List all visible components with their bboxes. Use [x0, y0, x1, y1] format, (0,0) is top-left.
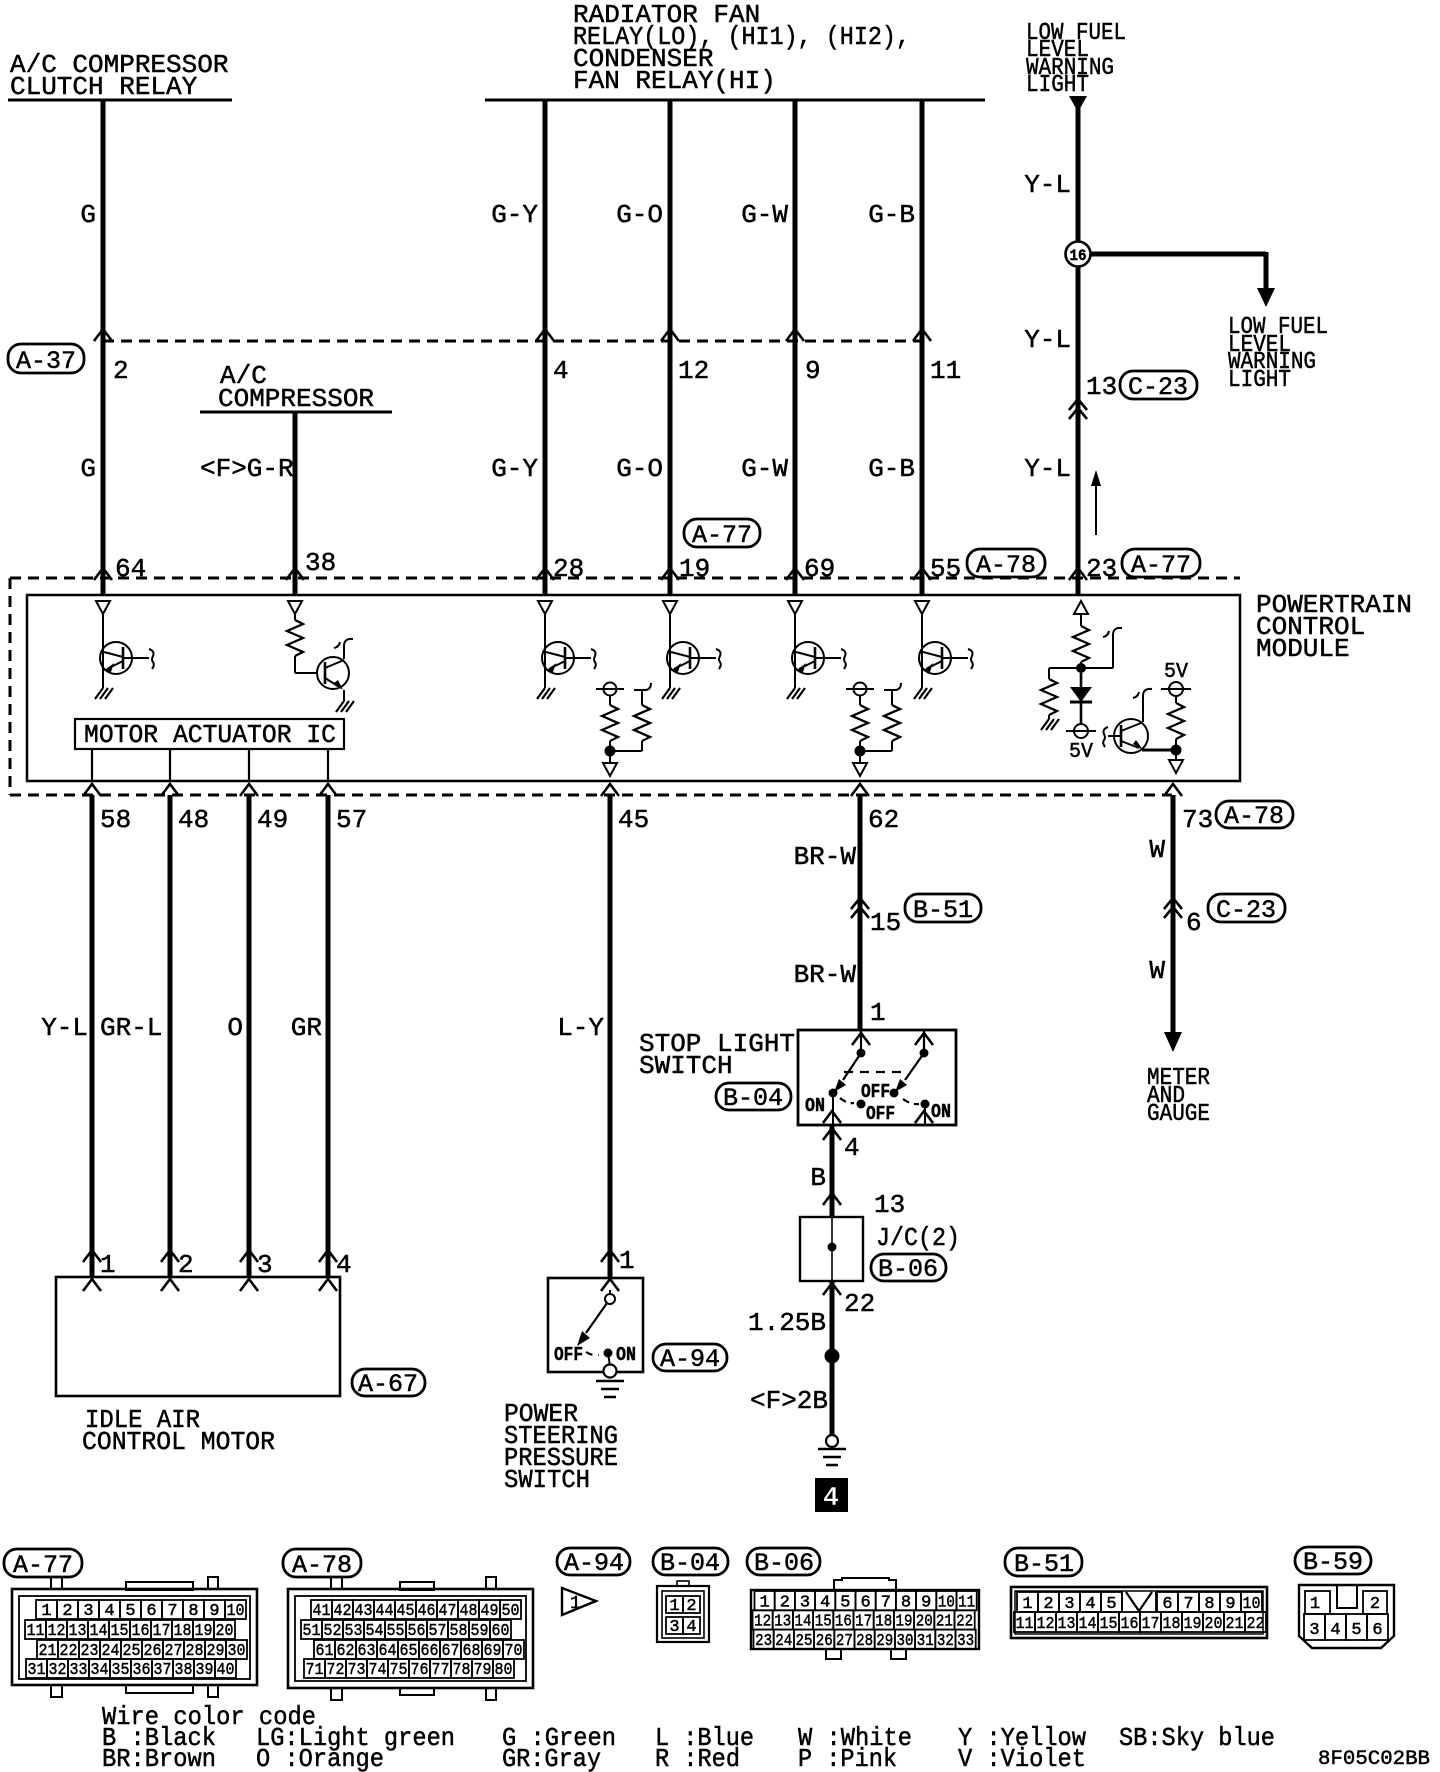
radiator fan relay bus bar: [485, 99, 985, 102]
svg-text:A-78: A-78: [976, 551, 1036, 580]
svg-text:O: O: [227, 1013, 243, 1043]
SLS left OFF contact dot: [857, 1100, 866, 1109]
IACM internal chevron pin 1: [83, 1279, 101, 1291]
svg-text:W: W: [1149, 835, 1165, 865]
splice dot on ground wire: [825, 1349, 840, 1364]
svg-text:L-Y: L-Y: [557, 1013, 604, 1043]
svg-text:9: 9: [209, 1602, 219, 1621]
MOTOR ACTUATOR IC box: [75, 719, 344, 750]
svg-text:MODULE: MODULE: [1256, 634, 1350, 664]
connector label B-06: [871, 1254, 946, 1284]
svg-text:CLUTCH RELAY: CLUTCH RELAY: [10, 72, 198, 102]
svg-text:13: 13: [1058, 1615, 1076, 1634]
IACM internal chevron pin 3: [240, 1279, 258, 1291]
svg-text:1: 1: [870, 998, 886, 1028]
svg-text:OFF: OFF: [866, 1103, 895, 1125]
transistor Q5 wire pin 69: [794, 614, 796, 688]
svg-text:J/C(2): J/C(2): [876, 1223, 960, 1253]
svg-text:79: 79: [474, 1661, 492, 1680]
SLS left pivot dot: [857, 1049, 866, 1058]
svg-text:A-67: A-67: [358, 1370, 418, 1399]
wire Y-L from low fuel level warning light to PCM pin 23: [1076, 108, 1081, 595]
arrowhead to meter and gauge: [1164, 1032, 1182, 1052]
sensor input circle for pin 45: [596, 683, 624, 696]
PSPS switch pivot: [605, 1290, 615, 1304]
idle air control motor label: [82, 1405, 275, 1457]
svg-text:B-51: B-51: [1014, 1550, 1074, 1579]
transistor Q3 wire pin 28: [544, 614, 546, 688]
svg-text:5V: 5V: [1069, 741, 1093, 764]
idle air control motor box: [56, 1277, 340, 1396]
svg-text:32: 32: [937, 1632, 954, 1651]
IACM internal chevron pin 4: [319, 1279, 337, 1291]
svg-text:9: 9: [805, 356, 821, 386]
svg-text:16: 16: [1070, 247, 1087, 265]
svg-text:58: 58: [450, 1622, 468, 1641]
SLS upper dashed link: [844, 1071, 906, 1073]
ground reference tag 4: [815, 1478, 848, 1514]
svg-text:A-37: A-37: [16, 347, 76, 376]
resistor R5 internal pin 62: [860, 683, 901, 751]
svg-text:Y-L: Y-L: [1024, 325, 1071, 355]
svg-text:MOTOR ACTUATOR IC: MOTOR ACTUATOR IC: [84, 720, 336, 750]
connector chevron wire G-W: [786, 329, 804, 341]
svg-text:A-77: A-77: [692, 521, 752, 550]
wire W from pin 73 to meter and gauge: [1171, 795, 1176, 1032]
svg-text:38: 38: [305, 548, 336, 578]
connector label B-51: [905, 894, 981, 925]
connector A-37 dashed junction line: [103, 340, 922, 343]
svg-text:1: 1: [570, 1594, 581, 1614]
connector A-94 single-pin symbol: [562, 1588, 596, 1615]
resistor R2 pull-down pin 45: [602, 695, 618, 748]
wire G from A/C compressor clutch relay to PCM pin 64: [101, 100, 106, 595]
SLS left pole output wire: [832, 1093, 834, 1125]
IC output stub to pin 48: [169, 749, 171, 781]
connector label A-94: [653, 1344, 727, 1374]
svg-text:31: 31: [917, 1632, 934, 1651]
A/C compressor clutch relay bus bar: [8, 99, 232, 102]
svg-text:58: 58: [100, 805, 131, 835]
double chevron at B-51: [851, 898, 869, 918]
svg-text:12: 12: [678, 356, 709, 386]
PCM entry chevron pin 55: [913, 568, 931, 580]
svg-text:57: 57: [429, 1622, 447, 1641]
svg-text:A-77: A-77: [1131, 551, 1191, 580]
svg-text:75: 75: [390, 1661, 408, 1680]
IACM internal chevron pin 2: [161, 1279, 179, 1291]
junction node pin 73: [1171, 745, 1182, 756]
svg-text:17: 17: [153, 1622, 171, 1641]
svg-text:43: 43: [355, 1602, 373, 1621]
svg-text:B-04: B-04: [660, 1549, 720, 1578]
svg-text:44: 44: [376, 1602, 394, 1621]
svg-text:31: 31: [28, 1661, 46, 1680]
connector label A-78 at pin 55: [967, 549, 1045, 580]
svg-text:12: 12: [48, 1622, 66, 1641]
input triangle pin 55: [915, 601, 929, 614]
svg-text:B: B: [810, 1163, 826, 1193]
wire Y-L from pin 58 to idle air control motor: [90, 795, 95, 1277]
svg-text:W: W: [1149, 956, 1165, 986]
SLS right dashed throw: [903, 1099, 919, 1104]
IACM pin 1 chevron: [83, 1250, 101, 1262]
SLS left output chevron: [823, 1111, 841, 1123]
svg-text:3: 3: [257, 1250, 273, 1280]
internal branch right of pin 23 node: [1081, 628, 1122, 668]
svg-text:1: 1: [619, 1246, 635, 1276]
svg-text:22: 22: [1247, 1615, 1265, 1634]
connector label B-51 (pinout): [1005, 1548, 1082, 1579]
svg-text:1: 1: [669, 1597, 679, 1616]
PCM exit chevron pin 73: [1164, 784, 1182, 796]
power steering pressure switch label: [504, 1399, 618, 1495]
transistor Q2: [317, 639, 353, 690]
svg-text:25: 25: [796, 1632, 813, 1651]
svg-text:45: 45: [397, 1602, 415, 1621]
svg-text:SB:Sky blue: SB:Sky blue: [1119, 1723, 1275, 1753]
direction arrow beside Y-L wire: [1091, 470, 1101, 535]
svg-text:B-59: B-59: [1303, 1548, 1363, 1577]
emitter wire Q7 to output node: [1142, 749, 1176, 752]
SLS left pole wire: [860, 1030, 862, 1053]
SLS right pivot dot: [920, 1049, 929, 1058]
svg-text:34: 34: [91, 1661, 109, 1680]
IC output stub to pin 58: [91, 749, 93, 781]
svg-text:47: 47: [439, 1602, 457, 1621]
svg-text:42: 42: [334, 1602, 352, 1621]
svg-text:18: 18: [174, 1622, 192, 1641]
svg-text:CONTROL MOTOR: CONTROL MOTOR: [82, 1427, 275, 1457]
PSPS switch lever to OFF: [577, 1303, 607, 1346]
connector label C-23: [1120, 371, 1197, 402]
SLS left ON contact dot: [829, 1089, 838, 1098]
ground Q1: [95, 688, 113, 699]
svg-text:1: 1: [41, 1602, 51, 1621]
wire 1.25B to ground: [830, 1281, 835, 1436]
svg-text:SWITCH: SWITCH: [504, 1465, 590, 1495]
arrow from low fuel level warning light into wire: [1069, 96, 1087, 112]
PCM exit chevron pin 48: [161, 784, 179, 796]
svg-text:13: 13: [874, 1190, 905, 1220]
svg-text:G-W: G-W: [741, 200, 788, 230]
SLS left pole entry chevron: [852, 1033, 870, 1045]
A/C compressor clutch relay label: [10, 50, 228, 102]
junction connector J/C(2) box: [800, 1217, 863, 1281]
svg-text:B-04: B-04: [723, 1084, 783, 1113]
arrowhead to low fuel level warning light: [1257, 288, 1275, 307]
ground R7: [1041, 719, 1059, 730]
double chevron on Y-L wire at C-23: [1069, 399, 1087, 419]
transistor Q7 collector wire with hook: [1133, 689, 1152, 722]
svg-text:78: 78: [453, 1661, 471, 1680]
svg-text:11: 11: [930, 356, 961, 386]
svg-text:G-Y: G-Y: [491, 454, 538, 484]
diode D1: [1070, 673, 1092, 724]
J/C(2) internal node dot: [828, 1243, 837, 1252]
radiator fan relay label: [573, 0, 910, 96]
svg-text:GR: GR: [291, 1013, 322, 1043]
svg-text:53: 53: [345, 1622, 363, 1641]
PCM inner solid box: [27, 595, 1240, 781]
A/C compressor bus bar: [200, 411, 392, 414]
svg-text:50: 50: [502, 1602, 520, 1621]
svg-text:35: 35: [112, 1661, 130, 1680]
svg-text:72: 72: [327, 1661, 345, 1680]
wire branch from node 16 to low fuel level warning light: [1090, 252, 1266, 290]
connector label A-78 (pinout): [283, 1549, 361, 1580]
input triangle pin 23 (pointing up): [1074, 601, 1088, 614]
connector B-06 pinout drawing: [751, 1578, 979, 1659]
svg-text:Y-L: Y-L: [1024, 454, 1071, 484]
transistor Q7: [1103, 719, 1148, 753]
stop light switch box: [798, 1030, 956, 1125]
svg-text:COMPRESSOR: COMPRESSOR: [218, 384, 374, 414]
IC output stub to pin 57: [327, 749, 329, 781]
svg-text:18: 18: [1163, 1615, 1181, 1634]
svg-text:15: 15: [1100, 1615, 1118, 1634]
svg-text:3: 3: [669, 1618, 679, 1637]
chevron pin 22: [823, 1283, 841, 1295]
svg-text:2: 2: [686, 1597, 696, 1616]
output triangle pin 62: [853, 756, 867, 776]
resistor R8 pull-up pin 73: [1168, 696, 1184, 748]
output triangle pin 73: [1169, 755, 1183, 773]
svg-text:24: 24: [775, 1632, 792, 1651]
SLS output chevron below box: [823, 1128, 841, 1140]
SLS right OFF contact dot: [890, 1089, 899, 1098]
svg-text:48: 48: [178, 805, 209, 835]
SLS right pole wire: [923, 1030, 925, 1053]
transistor Q5: [792, 642, 846, 674]
svg-text:60: 60: [492, 1622, 510, 1641]
SLS right lever: [895, 1053, 924, 1092]
svg-text:FAN RELAY(HI): FAN RELAY(HI): [573, 66, 776, 96]
svg-text:A-94: A-94: [660, 1345, 720, 1374]
svg-text:39: 39: [196, 1661, 214, 1680]
ground Q4: [662, 688, 680, 699]
POWERTRAIN CONTROL MODULE label: [1256, 590, 1412, 664]
svg-text:5V: 5V: [1164, 661, 1188, 684]
wire G-Y from radiator fan relay to PCM pin 28: [543, 100, 548, 595]
SLS right output chevron: [915, 1111, 933, 1123]
junction node pin 23: [1076, 663, 1086, 673]
svg-text:7: 7: [167, 1602, 177, 1621]
svg-text:59: 59: [471, 1622, 489, 1641]
svg-text:20: 20: [1205, 1615, 1223, 1634]
wire B from stop light switch to J/C(2): [830, 1125, 835, 1217]
svg-text:B-51: B-51: [913, 896, 973, 925]
svg-text:16: 16: [132, 1622, 150, 1641]
connector B-51 pinout drawing: [1011, 1587, 1267, 1638]
svg-text:48: 48: [460, 1602, 478, 1621]
power steering pressure switch box: [548, 1278, 643, 1372]
svg-text:37: 37: [154, 1661, 172, 1680]
chevron pin 13: [823, 1193, 841, 1205]
connector label C-23 lower: [1208, 894, 1285, 925]
input triangle pin 69: [788, 601, 802, 614]
svg-text:10: 10: [227, 1602, 245, 1621]
junction node pin 45: [605, 746, 616, 757]
meter and gauge label: [1147, 1065, 1210, 1128]
wire GR from pin 57: [326, 795, 331, 1277]
svg-text:ON: ON: [931, 1101, 951, 1123]
input triangle pin 38: [288, 601, 302, 614]
connector label A-94 (pinout): [557, 1548, 630, 1578]
svg-text:23: 23: [755, 1632, 772, 1651]
svg-text:Y-L: Y-L: [41, 1013, 88, 1043]
svg-text:13: 13: [1086, 372, 1117, 402]
PCM entry chevron pin 28: [536, 568, 554, 580]
svg-text:4: 4: [844, 1133, 860, 1163]
svg-text:52: 52: [324, 1622, 342, 1641]
connector label B-06 (pinout): [747, 1548, 820, 1578]
svg-text:O :Orange: O :Orange: [256, 1744, 384, 1772]
ground Q5: [787, 688, 805, 699]
double chevron at C-23: [1164, 898, 1182, 918]
svg-text:G-O: G-O: [616, 200, 663, 230]
svg-text:GR:Gray: GR:Gray: [502, 1744, 601, 1772]
connector A-78 pinout drawing: [288, 1577, 533, 1700]
resistor R1 at pin 38: [287, 614, 303, 673]
svg-text:32: 32: [49, 1661, 67, 1680]
svg-text:G-Y: G-Y: [491, 200, 538, 230]
svg-text:4: 4: [553, 356, 569, 386]
svg-text:8: 8: [188, 1602, 198, 1621]
PSPS pin 1 chevron: [601, 1250, 619, 1262]
wire GR-L from pin 48: [168, 795, 173, 1277]
connector chevron wire G-Y: [536, 329, 554, 341]
svg-text:19: 19: [1184, 1615, 1202, 1634]
A/C compressor label: [218, 361, 374, 414]
svg-text:6: 6: [1372, 1621, 1382, 1640]
svg-text:14: 14: [1079, 1615, 1097, 1634]
PSPS internal chevron: [601, 1279, 619, 1291]
svg-text:A-78: A-78: [292, 1551, 352, 1580]
chassis ground symbol: [818, 1449, 846, 1465]
wire G-O from radiator fan relay to PCM pin 19: [668, 100, 673, 595]
PSPS contact to ground wire: [608, 1353, 610, 1366]
svg-text:28: 28: [856, 1632, 873, 1651]
svg-text:62: 62: [868, 805, 899, 835]
IACM pin 4 chevron: [319, 1250, 337, 1262]
svg-text:14: 14: [90, 1622, 108, 1641]
stop light switch label: [639, 1029, 795, 1081]
transistor Q2 base wire: [295, 672, 318, 674]
svg-text:Y-L: Y-L: [1024, 170, 1071, 200]
svg-text:16: 16: [1121, 1615, 1139, 1634]
svg-text:73: 73: [1182, 805, 1213, 835]
svg-text:12: 12: [1037, 1615, 1055, 1634]
svg-text:36: 36: [133, 1661, 151, 1680]
svg-text:21: 21: [1226, 1615, 1244, 1634]
svg-text:ON: ON: [616, 1344, 636, 1366]
svg-text:73: 73: [348, 1661, 366, 1680]
transistor Q1: [100, 642, 154, 674]
PSPS ground circle: [604, 1365, 617, 1378]
IACM pin 3 chevron: [240, 1250, 258, 1262]
wire G-B from radiator fan relay to PCM pin 55: [920, 100, 925, 595]
svg-text:5: 5: [1351, 1621, 1361, 1640]
transistor Q6: [919, 642, 973, 674]
svg-text:4: 4: [1330, 1621, 1340, 1640]
svg-text:77: 77: [432, 1661, 450, 1680]
svg-text:6: 6: [146, 1602, 156, 1621]
svg-text:4: 4: [686, 1618, 696, 1637]
transistor Q6 wire pin 55: [921, 614, 923, 688]
svg-text:C-23: C-23: [1216, 896, 1276, 925]
wire color code legend: [102, 1702, 1275, 1772]
svg-text:G-B: G-B: [868, 454, 915, 484]
svg-text:49: 49: [481, 1602, 499, 1621]
svg-text:4: 4: [823, 1484, 839, 1514]
ground Q6: [914, 688, 932, 699]
wire O from pin 49: [247, 795, 252, 1277]
PSPS dashed throw to ON: [586, 1352, 599, 1355]
connector label A-67: [352, 1369, 425, 1399]
IC output stub to pin 49: [248, 749, 250, 781]
transistor Q3: [542, 642, 596, 674]
svg-text:3: 3: [83, 1602, 93, 1621]
svg-text:G-B: G-B: [868, 200, 915, 230]
SLS right pole output wire: [924, 1104, 926, 1125]
svg-text:46: 46: [418, 1602, 436, 1621]
transistor Q4: [667, 642, 721, 674]
wire G-W from radiator fan relay to PCM pin 69: [793, 100, 798, 595]
svg-text:76: 76: [411, 1661, 429, 1680]
resistor R4 pull-down pin 62: [852, 695, 868, 748]
svg-text:15: 15: [870, 908, 901, 938]
svg-text:P :Pink: P :Pink: [798, 1744, 897, 1772]
IACM pin 2 chevron: [161, 1250, 179, 1262]
svg-text:4: 4: [104, 1602, 114, 1621]
svg-text:BR-W: BR-W: [794, 842, 857, 872]
wire L-Y from pin 45 to power steering pressure switch: [608, 795, 613, 1278]
ground Q2: [336, 690, 354, 712]
svg-text:B-06: B-06: [754, 1549, 814, 1578]
connector label B-04 (pinout): [653, 1548, 728, 1578]
PCM entry chevron pin 19: [661, 568, 679, 580]
svg-text:22: 22: [844, 1289, 875, 1319]
svg-text:BR:Brown: BR:Brown: [102, 1744, 216, 1772]
svg-text:C-23: C-23: [1128, 373, 1188, 402]
svg-text:13: 13: [69, 1622, 87, 1641]
svg-text:49: 49: [257, 805, 288, 835]
svg-text:71: 71: [306, 1661, 324, 1680]
PCM exit chevron pin 57: [319, 784, 337, 796]
svg-text:G-O: G-O: [616, 454, 663, 484]
resistor R6 at pin 23: [1073, 614, 1089, 668]
PCM entry chevron pin 64: [94, 568, 112, 580]
svg-text:17: 17: [1142, 1615, 1160, 1634]
svg-text:26: 26: [816, 1632, 833, 1651]
ground terminal circle: [826, 1435, 838, 1447]
svg-text:2: 2: [113, 356, 129, 386]
svg-text:SWITCH: SWITCH: [639, 1051, 733, 1081]
connector B-04 pinout drawing: [657, 1581, 709, 1642]
PCM entry chevron pin 38: [286, 568, 304, 580]
svg-text:80: 80: [495, 1661, 513, 1680]
SLS left lever: [834, 1053, 861, 1092]
PCM exit chevron pin 49: [240, 784, 258, 796]
svg-text:5: 5: [125, 1602, 135, 1621]
svg-text:2: 2: [62, 1602, 72, 1621]
svg-text:V :Violet: V :Violet: [958, 1744, 1086, 1772]
PCM exit chevron pin 45: [601, 784, 619, 796]
svg-text:27: 27: [836, 1632, 853, 1651]
svg-text:1: 1: [1310, 1595, 1320, 1614]
svg-text:19: 19: [195, 1622, 213, 1641]
